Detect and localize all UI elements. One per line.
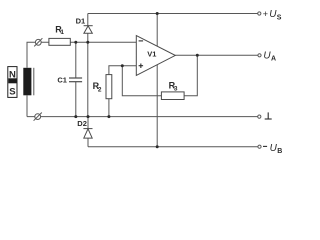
resistor R3 (161, 92, 184, 100)
wire R2 bottom lead (108, 99, 110, 117)
label - Ub (263, 145, 267, 147)
junction + input / feedback (121, 64, 124, 67)
terminal ground (258, 115, 261, 118)
junction -Ub rail / negative supply (156, 145, 159, 148)
junction top rail / +supply (156, 12, 159, 15)
svg-text:A: A (271, 55, 276, 62)
resistor R2 (106, 75, 112, 99)
wire ground rail (0V) (27, 116, 258, 118)
wire sensor bottom lead (26, 95, 28, 116)
terminal -Ub (258, 145, 261, 148)
svg-text:B: B (277, 148, 282, 155)
terminal +Us (258, 12, 261, 15)
junction node A dot (D1 tap) (86, 41, 89, 44)
wire R2 top lead to non-inverting input (109, 66, 136, 75)
wire D2 column (87, 117, 89, 147)
op-amp U1 (comparator V1) (136, 36, 175, 76)
wire positive supply drop to op-amp (156, 14, 158, 47)
coil (pickup winding, solid bar) (23, 68, 31, 96)
plug connection top (circle with slash) (34, 38, 42, 46)
junction ground rail / R2 (107, 115, 110, 118)
capacitor C1 (69, 78, 82, 82)
junction node A dot (C1 tap) (74, 41, 77, 44)
svg-text:N: N (9, 70, 16, 81)
junction ground rail / D2 (87, 115, 90, 118)
wire D1 column (87, 14, 89, 117)
diode D2 (83, 129, 92, 139)
wire R3 right lead up to output (184, 55, 197, 95)
svg-text:+: + (263, 9, 268, 19)
svg-text:3: 3 (174, 86, 178, 93)
wire negative supply from op-amp to -Ub rail (156, 65, 158, 147)
svg-text:D1: D1 (76, 17, 86, 26)
wire main node A: R1 to op-amp inverting input (70, 41, 136, 43)
svg-text:S: S (9, 87, 15, 98)
pin minus (inverting input) (139, 40, 144, 42)
pin plus (non-inverting input) (139, 64, 144, 69)
wire C1 column (75, 42, 77, 116)
label ground symbol (265, 112, 272, 119)
wire -Ub bottom rail (88, 146, 258, 148)
svg-text:S: S (277, 15, 282, 22)
junction output / feedback (196, 54, 199, 57)
svg-text:V1: V1 (147, 49, 156, 58)
junction ground rail / C1 (74, 115, 77, 118)
wire feedback branch from + input down to R3 (122, 66, 161, 96)
wire op-amp output to Ua terminal (175, 54, 258, 56)
core line (33, 68, 35, 96)
wire +Us top rail (88, 13, 258, 15)
terminal Ua (258, 54, 261, 57)
svg-text:1: 1 (60, 29, 64, 36)
plug connection bottom (circle with slash) (34, 113, 42, 121)
wire sensor top lead to node (27, 42, 49, 68)
svg-text:C1: C1 (57, 76, 67, 85)
resistor R1 (49, 38, 70, 45)
magnet (N/S) of inductive sensor (8, 67, 17, 98)
diode D1 (84, 26, 93, 34)
svg-text:2: 2 (98, 87, 102, 94)
svg-text:D2: D2 (77, 119, 87, 128)
